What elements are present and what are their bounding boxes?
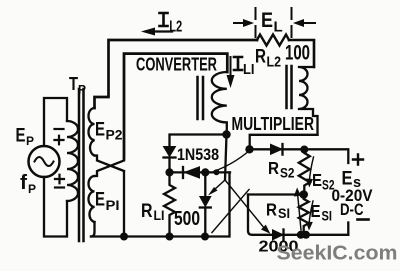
node EL dashed marker left xyxy=(255,8,257,37)
svg-text:E: E xyxy=(95,190,105,211)
wire converter left lead down xyxy=(123,54,125,159)
svg-text:L: L xyxy=(274,19,283,36)
node blob L5 start xyxy=(214,169,220,175)
svg-text:E: E xyxy=(95,120,105,141)
polarity minus lower xyxy=(55,186,64,188)
wiper arrow into RS2 xyxy=(294,188,301,231)
wire diode section top xyxy=(170,135,227,147)
label CONVERTER xyxy=(136,55,217,75)
multiplier box bottom wire xyxy=(250,135,318,150)
svg-text:R: R xyxy=(268,158,279,178)
node dot D2-D3 xyxy=(201,168,209,176)
label Ep2 xyxy=(95,120,123,143)
source loop wires xyxy=(44,98,67,237)
multiplier transformer winding L2 xyxy=(299,67,318,135)
svg-text:E: E xyxy=(312,170,322,190)
resistor RL2 xyxy=(257,35,289,46)
node dot bottom RS1 xyxy=(297,231,305,239)
node EL dashed marker right xyxy=(291,8,293,37)
svg-text:CONVERTER: CONVERTER xyxy=(136,55,217,75)
source label fp xyxy=(20,172,36,196)
label MULTIPLIER xyxy=(232,114,315,134)
label 1N538 xyxy=(177,146,219,164)
node dot RS2 top xyxy=(300,146,308,154)
svg-text:L2: L2 xyxy=(267,54,282,71)
svg-text:D-C: D-C xyxy=(340,200,364,219)
label RS1 xyxy=(266,200,290,222)
node dot RS2-RS1 junction xyxy=(299,190,308,199)
output terminal minus xyxy=(358,218,369,221)
wire middle horizontal xyxy=(170,171,231,173)
label RL2 xyxy=(255,47,281,71)
primary winding of Tp xyxy=(67,121,78,201)
polarity plus lower xyxy=(55,175,64,184)
svg-text:SeekIC.com: SeekIC.com xyxy=(277,243,398,265)
wire converter junction down xyxy=(225,135,227,181)
AC source circle xyxy=(29,146,60,177)
wiper arm W1 toward RS1 box xyxy=(225,180,270,234)
arrow IL2 xyxy=(141,28,172,36)
bottom rail xyxy=(91,172,230,236)
value 100 xyxy=(285,42,310,65)
current label IL2 xyxy=(160,13,168,26)
svg-text:R: R xyxy=(266,200,277,220)
wire RL2 to multiplier xyxy=(289,40,314,67)
crossover X of secondaries xyxy=(95,156,125,177)
svg-text:SI: SI xyxy=(322,209,333,224)
arrow IL1 xyxy=(227,57,235,88)
wire output top xyxy=(250,149,349,163)
wire curve to multiplier output node xyxy=(214,151,250,172)
diode D2 xyxy=(183,167,200,178)
resistor RL1 xyxy=(164,172,175,236)
multiplier transformer core xyxy=(287,66,292,108)
svg-text:SI: SI xyxy=(278,206,290,221)
output label D-C xyxy=(340,200,364,219)
label ES2 xyxy=(312,170,335,193)
svg-text:T: T xyxy=(69,74,78,94)
current label IL1 xyxy=(234,57,242,70)
resistor RS1 xyxy=(299,195,309,235)
arrow EL left xyxy=(234,19,254,27)
sense box left and bottom wire xyxy=(248,195,348,235)
label RL1 xyxy=(141,201,165,223)
svg-text:P: P xyxy=(28,182,36,196)
label Ep1 xyxy=(95,190,120,214)
sense box top wire xyxy=(248,193,304,195)
value 2000 xyxy=(259,239,299,256)
svg-text:f: f xyxy=(20,172,27,194)
svg-text:500: 500 xyxy=(174,207,200,230)
converter transformer core xyxy=(198,77,204,119)
secondary winding Ep2 xyxy=(89,108,95,156)
svg-text:PI: PI xyxy=(106,198,120,213)
converter box xyxy=(124,54,227,159)
label RS2 xyxy=(268,158,295,181)
wire output bottom stub xyxy=(347,223,349,235)
voltage arrow ES1 xyxy=(306,201,313,231)
voltage label EL xyxy=(261,9,283,36)
wiper arm W2 xyxy=(212,190,249,233)
diode D5 xyxy=(271,144,283,155)
diode D1 1N538 xyxy=(164,147,176,173)
node dot rail-X xyxy=(120,233,128,241)
transformer Tp label xyxy=(69,74,86,97)
svg-text:S2: S2 xyxy=(280,166,295,181)
node dot rail-RL1 xyxy=(166,233,174,241)
resistor RS2 xyxy=(299,150,310,195)
source label Ep xyxy=(16,126,35,149)
polarity minus upper xyxy=(55,128,64,130)
secondary winding Ep1 xyxy=(89,176,95,222)
polarity plus upper xyxy=(55,136,64,145)
svg-text:1N538: 1N538 xyxy=(177,146,219,164)
svg-text:LI: LI xyxy=(243,61,255,78)
wire outer top loop xyxy=(95,40,258,108)
svg-text:E: E xyxy=(16,126,26,147)
svg-text:R: R xyxy=(141,201,153,222)
diode D3 xyxy=(200,172,211,236)
label ES1 xyxy=(311,201,333,224)
svg-text:P: P xyxy=(26,134,34,148)
arrow EL right xyxy=(293,19,315,27)
node dot converter junction xyxy=(222,130,230,138)
arrow to diode D3 xyxy=(208,180,225,196)
output terminal plus xyxy=(353,155,363,165)
output label Es xyxy=(342,169,362,192)
AC source sine xyxy=(35,157,54,166)
wire Ep1 to rail xyxy=(91,222,95,237)
svg-text:E: E xyxy=(261,9,273,32)
node dot multiplier output xyxy=(245,145,253,153)
svg-text:P2: P2 xyxy=(106,128,123,143)
svg-text:100: 100 xyxy=(285,42,310,65)
output label 0-20V xyxy=(332,186,374,205)
svg-text:L2: L2 xyxy=(169,19,182,36)
voltage arrow ES2 xyxy=(306,157,314,188)
diode D4 xyxy=(273,230,284,241)
transformer Tp core xyxy=(79,89,84,241)
svg-text:MULTIPLIER: MULTIPLIER xyxy=(232,114,315,134)
node dot bottom RS1b xyxy=(302,231,310,239)
svg-text:R: R xyxy=(255,47,266,68)
node dot rail-D3 xyxy=(201,233,209,241)
svg-text:E: E xyxy=(311,201,321,221)
converter transformer winding L1 xyxy=(212,72,227,135)
value 500 xyxy=(174,207,200,230)
node dot D1-RL1 xyxy=(165,168,173,176)
wire X to bottom rail xyxy=(123,172,125,237)
svg-text:LI: LI xyxy=(154,207,165,223)
